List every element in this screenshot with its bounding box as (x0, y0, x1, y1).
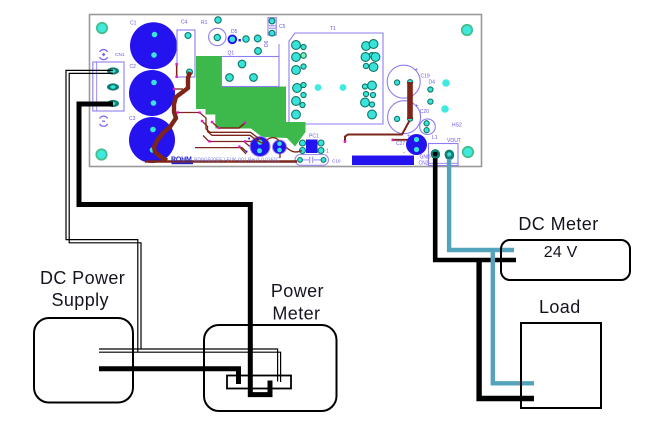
capacitor C10 (295, 155, 329, 166)
power meter shunt rectangle (227, 376, 291, 389)
svg-text:1: 1 (326, 149, 329, 155)
CN2 pad GND (431, 150, 440, 159)
C4 pad bottom (187, 69, 193, 75)
svg-text:D5: D5 (231, 29, 238, 35)
svg-text:DC Power: DC Power (40, 268, 125, 288)
via above R1 (215, 17, 221, 23)
wire thick black CN1 to power meter (79, 104, 270, 395)
capacitor C4 outline (177, 30, 195, 77)
capacitor C27 (406, 134, 427, 155)
CN1 pad 2 (107, 83, 119, 90)
resistor R1 (209, 28, 226, 45)
magenta dot trace ends (344, 140, 347, 143)
svg-text:T1: T1 (330, 26, 336, 32)
Q1 vias (226, 60, 258, 81)
mounting hole top-right (462, 25, 472, 35)
svg-text:C4: C4 (181, 20, 188, 26)
wire thin pair CN1 to junction (outer) (66, 70, 138, 352)
wire thin pair DCPS to meter (bottom) (99, 352, 281, 382)
capacitor C1 (130, 22, 177, 69)
trace cap B to PC1 (287, 148, 303, 152)
transistor Q1 outline (222, 57, 280, 87)
trace bottom horizontal (145, 160, 297, 163)
svg-text:Load: Load (539, 297, 581, 317)
T1 left pads (292, 41, 307, 119)
svg-text:D6: D6 (264, 40, 270, 47)
svg-text:+: + (415, 104, 419, 110)
trace thin t3 (212, 122, 218, 128)
via right of D5 (243, 36, 249, 42)
T1 right pads (361, 40, 380, 119)
trace cap A to B (266, 138, 279, 141)
trace thick squiggle from C4 to bottom (154, 72, 190, 161)
trace thin t5 (219, 123, 245, 128)
trace thin t6 (195, 148, 247, 153)
wire thick black DCPS sense (99, 369, 239, 384)
connector CN2 outline (429, 144, 459, 166)
mounting hole top-left (97, 23, 107, 33)
svg-text:C27: C27 (396, 141, 405, 147)
svg-text:R1: R1 (201, 20, 208, 26)
tiny blue vias (248, 138, 250, 140)
svg-text:C5: C5 (279, 24, 286, 30)
svg-text:DC Meter: DC Meter (518, 214, 598, 234)
svg-text:BD9G500EFJ-EVK-001 Rev3.0 03: BD9G500EFJ-EVK-001 Rev3.0 0361C (194, 158, 280, 164)
ROHM underline (172, 163, 194, 165)
capacitor C2 (129, 70, 175, 116)
svg-text:CN2: CN2 (419, 160, 429, 166)
blue connector strip bottom (352, 156, 414, 166)
svg-text:+: + (415, 68, 419, 74)
wire black branch to load (479, 260, 534, 399)
C4 pad top (185, 33, 191, 39)
svg-text:Meter: Meter (272, 303, 320, 323)
wire teal VOUT from CN2 (449, 153, 514, 250)
D4 pads (428, 87, 433, 92)
capacitor C20 outline (388, 101, 421, 134)
CN2 pad VOUT (445, 151, 454, 160)
wire purple net C5 to Q1 (278, 44, 280, 58)
DC Power Supply box (34, 318, 133, 403)
connector CN1 outline (93, 62, 124, 111)
capacitor small A (250, 137, 270, 157)
CN2 pad rings over wires (432, 150, 439, 157)
C20 pads (395, 116, 400, 121)
svg-text:Power: Power (271, 281, 324, 301)
wire thin pair DCPS to meter (top) (99, 349, 278, 382)
svg-text:Supply: Supply (51, 290, 108, 310)
via 2 right of D5 (254, 35, 261, 42)
wire black GND from CN2 (435, 152, 516, 260)
svg-text:HS2: HS2 (452, 123, 462, 129)
transformer T1 outline (289, 33, 383, 124)
Load box (521, 323, 601, 408)
svg-text:24 V: 24 V (544, 244, 578, 261)
C19 pads (395, 80, 400, 85)
svg-text:PC1: PC1 (309, 134, 319, 140)
svg-text:L1: L1 (432, 135, 438, 141)
Power Meter box (204, 325, 337, 411)
DC Meter box (501, 240, 630, 280)
trace thin t7 (245, 140, 252, 142)
trace to C27 (345, 121, 409, 142)
inductor L1 (420, 119, 436, 135)
CN1 pad 1 (107, 67, 119, 74)
T1 center vias (315, 84, 322, 91)
mounting hole bottom-left (96, 149, 106, 159)
svg-text:+: + (407, 134, 411, 140)
capacitor C19 outline (387, 65, 420, 98)
svg-text:C10: C10 (332, 159, 341, 164)
capacitor C5 (268, 18, 276, 36)
PCB board outline (90, 15, 482, 167)
svg-text:Q1: Q1 (228, 51, 235, 57)
diode D6 pads (255, 48, 262, 55)
PC1 pads (300, 140, 325, 154)
svg-text:C3: C3 (129, 116, 136, 122)
magenta dots (173, 63, 246, 148)
trace thin t1 (178, 113, 262, 141)
trace thin t2 (202, 121, 263, 144)
CN1 polarity symbol bottom (100, 116, 108, 126)
svg-text:C20: C20 (420, 109, 429, 115)
capacitor small B (273, 140, 287, 154)
D4 vias (442, 79, 450, 87)
svg-text:C2: C2 (130, 64, 137, 70)
trace thin t4 (203, 136, 250, 147)
trace thin C4 tick (176, 65, 178, 76)
capacitor C3 (129, 117, 175, 163)
svg-text:C1: C1 (130, 21, 137, 27)
diode D5 (228, 35, 241, 45)
wire teal branch to load (493, 250, 534, 383)
svg-text:VOUT: VOUT (447, 138, 461, 144)
CN1 pad 3 (107, 100, 119, 107)
copper pour green area (196, 56, 306, 147)
svg-text:D4: D4 (429, 80, 436, 86)
trace thick vertical through C19 C20 (407, 82, 413, 119)
svg-text:CN1: CN1 (115, 52, 125, 58)
CN1 polarity symbol top (100, 50, 108, 60)
wire thin pair CN1 to junction (inner) (69, 73, 141, 349)
svg-text:ROHM: ROHM (171, 157, 192, 164)
photocoupler PC1 (306, 140, 318, 154)
trace thin t8 C2 (174, 88, 183, 90)
trace cap B down (279, 154, 281, 159)
mounting hole bottom-right (463, 147, 473, 157)
trace C27 stub (393, 139, 412, 141)
